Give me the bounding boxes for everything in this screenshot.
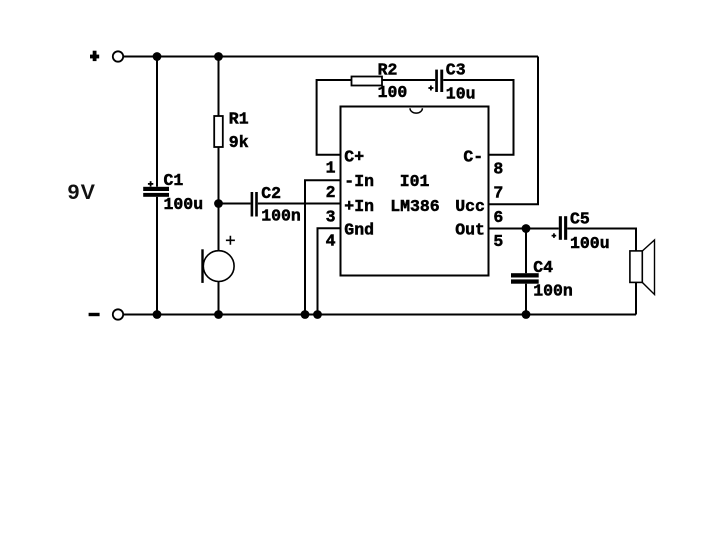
label C2 xyxy=(261,184,281,203)
label C1 xyxy=(164,171,184,190)
svg-text:C2: C2 xyxy=(261,184,281,203)
svg-text:Gnd: Gnd xyxy=(344,220,374,239)
svg-text:1: 1 xyxy=(326,158,336,177)
svg-text:Out: Out xyxy=(455,220,485,239)
value 100u (C1) xyxy=(164,195,204,214)
junction dot node A (R1/C2/mic) xyxy=(214,199,223,208)
terminal negative (open circle) xyxy=(113,309,123,319)
IC part number LM386 xyxy=(390,197,440,216)
svg-text:C-: C- xyxy=(463,147,483,166)
svg-text:6: 6 xyxy=(493,208,503,227)
svg-text:R1: R1 xyxy=(229,110,249,129)
label C3 xyxy=(446,61,466,80)
svg-text:100: 100 xyxy=(378,83,408,102)
svg-text:8: 8 xyxy=(493,160,503,179)
capacitor C3 polarity + xyxy=(428,86,433,91)
wire C1 top xyxy=(156,57,158,187)
wire C4 to ground rail xyxy=(525,284,527,315)
value 100n (C4) xyxy=(533,282,573,301)
svg-text:100n: 100n xyxy=(261,207,301,226)
wire pin 1 to feedback loop xyxy=(317,80,352,155)
wire node A to C2 xyxy=(219,203,251,205)
wire top supply rail xyxy=(124,56,539,58)
label C5 xyxy=(570,209,590,228)
svg-text:Ucc: Ucc xyxy=(455,197,485,216)
wire pin 2 to ground rail xyxy=(305,180,341,314)
junction dot ground rail / C1 xyxy=(153,310,162,319)
pin label -In xyxy=(344,172,374,191)
svg-text:100n: 100n xyxy=(533,282,573,301)
wire pin 5 (Out) to C5 xyxy=(488,228,559,230)
IC notch xyxy=(410,108,422,113)
wire C3 to pin 8 xyxy=(443,80,513,155)
svg-text:C4: C4 xyxy=(533,258,553,277)
value 9k (R1) xyxy=(229,133,249,152)
resistor R1 xyxy=(214,116,223,147)
microphone polarity + xyxy=(226,236,235,245)
pin label Ucc xyxy=(455,197,485,216)
wire bottom ground rail xyxy=(124,314,637,316)
pin number 8 xyxy=(493,160,503,179)
svg-text:2: 2 xyxy=(326,183,336,202)
value 10u (C3) xyxy=(446,85,476,104)
wire C1 bottom xyxy=(156,197,158,315)
svg-text:LM386: LM386 xyxy=(390,197,440,216)
junction dot ground rail / C4 xyxy=(522,310,531,319)
pin number 6 xyxy=(493,208,503,227)
pin label +In xyxy=(344,197,374,216)
capacitor C5 polarity + xyxy=(552,233,557,238)
svg-text:3: 3 xyxy=(326,207,336,226)
capacitor C4 xyxy=(511,273,539,283)
battery negative symbol - xyxy=(89,313,100,316)
svg-text:100u: 100u xyxy=(164,195,204,214)
wire microphone to ground rail xyxy=(218,282,220,315)
wire C5 to speaker xyxy=(567,229,636,252)
svg-text:7: 7 xyxy=(493,184,503,203)
terminal positive (open circle) xyxy=(113,51,123,61)
pin number 4 xyxy=(326,232,336,251)
svg-text:4: 4 xyxy=(326,232,336,251)
svg-text:R2: R2 xyxy=(378,61,398,80)
wire node A to microphone xyxy=(218,204,220,251)
pin number 1 xyxy=(326,158,336,177)
capacitor C3 xyxy=(435,70,443,92)
junction dot ground rail / pin2 xyxy=(301,310,310,319)
IC designator I01 xyxy=(400,172,430,191)
junction dot ground rail / pin4 xyxy=(313,310,322,319)
svg-text:10u: 10u xyxy=(446,85,476,104)
capacitor C5 xyxy=(559,216,567,240)
svg-text:C1: C1 xyxy=(164,171,184,190)
junction dot top rail / R1 xyxy=(214,52,223,61)
junction dot output node xyxy=(522,224,531,233)
wire R2 to C3 xyxy=(382,79,435,81)
battery label 9V xyxy=(68,180,97,204)
capacitor C2 xyxy=(251,192,258,217)
wire C2 to pin 3 (+In) xyxy=(258,203,341,205)
microphone MIC1 xyxy=(201,249,234,283)
junction dot top rail / C1 xyxy=(153,52,162,61)
svg-text:C5: C5 xyxy=(570,209,590,228)
svg-text:5: 5 xyxy=(493,232,503,251)
pin label C+ xyxy=(344,147,364,166)
wire pin 6 (Ucc) to supply rail xyxy=(488,57,538,205)
value 100n (C2) xyxy=(261,207,301,226)
wire R1 bottom to node A xyxy=(218,147,220,204)
pin number 5 xyxy=(493,232,503,251)
value 100 (R2) xyxy=(378,83,408,102)
svg-text:100u: 100u xyxy=(570,234,610,253)
svg-text:9k: 9k xyxy=(229,133,249,152)
wire ground rail to speaker xyxy=(635,282,637,314)
label R2 xyxy=(378,61,398,80)
svg-text:C+: C+ xyxy=(344,147,364,166)
wire pin 4 to ground rail xyxy=(318,228,342,314)
svg-text:9V: 9V xyxy=(68,180,97,204)
pin number 7 xyxy=(493,184,503,203)
wire output node to C4 xyxy=(525,229,527,274)
svg-text:-In: -In xyxy=(344,172,374,191)
svg-text:I01: I01 xyxy=(400,172,430,191)
label C4 xyxy=(533,258,553,277)
speaker LS1 xyxy=(630,240,655,295)
pin number 2 xyxy=(326,183,336,202)
pin label Gnd xyxy=(344,220,374,239)
capacitor C1 xyxy=(143,187,169,197)
op-amp IC U1 LM386 body xyxy=(341,107,489,276)
resistor R2 xyxy=(352,77,383,86)
svg-text:C3: C3 xyxy=(446,61,466,80)
value 100u (C5) xyxy=(570,234,610,253)
battery positive symbol + xyxy=(90,51,99,61)
label R1 xyxy=(229,110,249,129)
capacitor C1 polarity + xyxy=(148,181,153,186)
svg-text:+In: +In xyxy=(344,197,374,216)
junction dot ground rail / mic xyxy=(214,310,223,319)
wire R1 top xyxy=(218,57,220,117)
pin number 3 xyxy=(326,207,336,226)
pin label C- xyxy=(463,147,483,166)
pin label Out xyxy=(455,220,485,239)
